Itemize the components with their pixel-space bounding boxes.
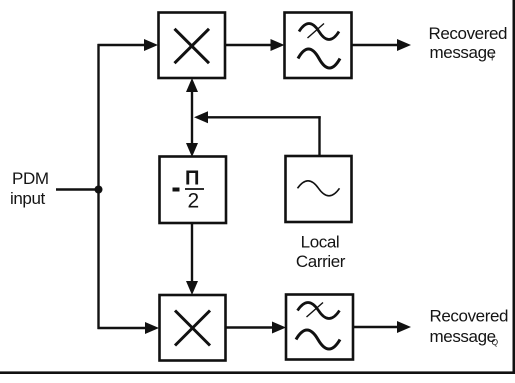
multiplier M2 X symbol — [175, 311, 210, 346]
wire local carrier vertical riser — [318, 116, 320, 156]
multiplier M2 (bottom mixer box) — [160, 295, 226, 361]
svg-text:I: I — [491, 53, 493, 63]
wire input trunk vertical — [97, 44, 99, 329]
svg-text:2: 2 — [188, 190, 199, 213]
svg-text:message: message — [430, 327, 496, 346]
svg-text:message: message — [430, 43, 496, 62]
filter F1 lower sine — [298, 49, 340, 68]
wire PDM input lead — [56, 188, 99, 190]
oscillator OSC (local carrier box) — [286, 156, 352, 222]
svg-text:Local: Local — [301, 233, 340, 252]
border right rule — [513, 0, 515, 374]
phase shifter U1 (-pi/2 box) — [160, 157, 227, 224]
filter F2 lower sine — [296, 330, 340, 349]
filter F1 upper sine with slash — [299, 24, 339, 40]
svg-text:Recovered: Recovered — [429, 24, 508, 43]
svg-text:Recovered: Recovered — [430, 307, 509, 326]
svg-text:Π: Π — [185, 167, 199, 189]
node junction dot — [95, 186, 103, 194]
label PDM input — [10, 169, 49, 208]
wire bottom filter output arrow — [353, 321, 411, 333]
phase shifter minus sign — [173, 188, 180, 192]
multiplier M1 (top mixer box) — [159, 13, 226, 79]
multiplier M1 X symbol — [175, 29, 210, 63]
wire top filter output arrow — [352, 39, 411, 51]
svg-text:PDM: PDM — [12, 169, 49, 188]
wire trunk to bottom multiplier — [98, 322, 160, 334]
svg-text:Carrier: Carrier — [296, 252, 346, 271]
wire bottom multiplier to bottom filter — [226, 322, 287, 334]
filter F2 upper sine with slash — [298, 303, 340, 319]
oscillator sine symbol — [298, 181, 340, 196]
wire phase shifter to bottom multiplier — [186, 223, 286, 295]
label Local Carrier — [296, 233, 346, 272]
filter F2 (bottom low-pass filter box) — [286, 295, 353, 360]
svg-text:Q: Q — [492, 337, 499, 347]
border bottom rule — [0, 371, 515, 374]
filter F1 (top low-pass filter box) — [285, 13, 352, 79]
label Recovered message Q — [430, 307, 509, 347]
label Recovered message I — [429, 24, 508, 63]
wire double-headed arrow between top multiplier and phase shifter — [186, 78, 198, 157]
wire top multiplier to top filter — [225, 39, 285, 51]
wire local carrier to mixer line (horizontal with left arrowhead) — [194, 111, 321, 123]
wire trunk to top multiplier — [98, 39, 159, 51]
phase shifter fraction bar — [185, 188, 204, 190]
svg-text:input: input — [10, 189, 46, 208]
